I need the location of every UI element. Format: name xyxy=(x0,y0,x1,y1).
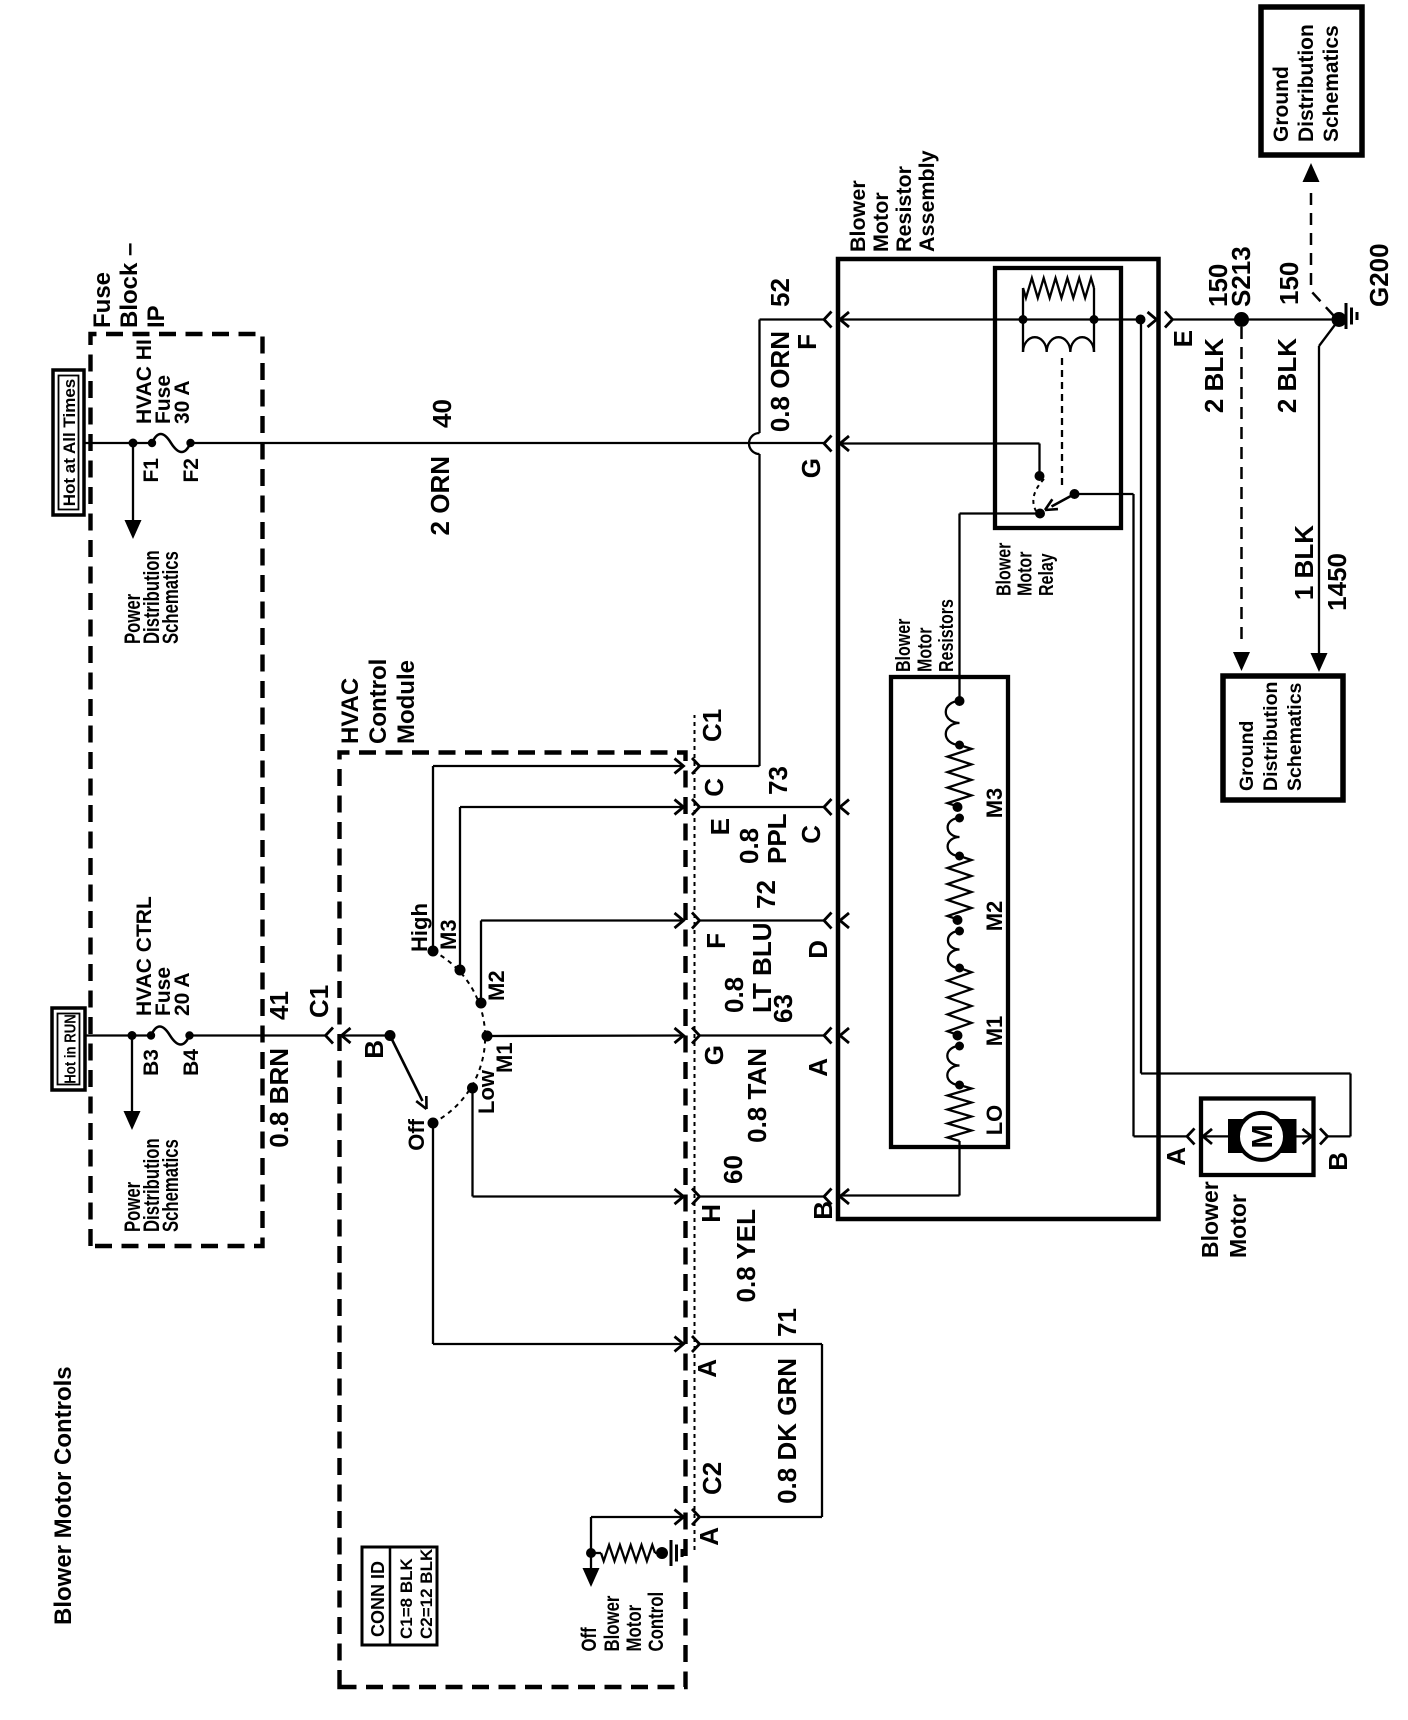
svg-text:72: 72 xyxy=(751,880,781,909)
svg-text:Ground: Ground xyxy=(1236,721,1258,791)
terminal dot of off resistor xyxy=(656,1547,668,1559)
wire 0.8 LT BLU 72 from pin F to assembly pin D xyxy=(700,919,825,921)
svg-text:G: G xyxy=(796,458,826,478)
switch contact Off xyxy=(428,1118,439,1129)
svg-text:Motor: Motor xyxy=(1225,1194,1251,1258)
connector pin G of resistor assembly xyxy=(824,436,832,452)
relay stationary contact (2 ORN) xyxy=(1035,471,1045,481)
svg-text:60: 60 xyxy=(718,1155,748,1184)
motor symbol M with brushes xyxy=(1203,1113,1312,1160)
svg-text:20 A: 20 A xyxy=(171,972,194,1016)
svg-text:Control: Control xyxy=(645,1592,668,1652)
svg-text:Resistors: Resistors xyxy=(935,599,957,672)
svg-text:Schematics: Schematics xyxy=(159,551,184,644)
connector pin B of resistor assembly xyxy=(824,1189,832,1205)
svg-text:G: G xyxy=(699,1045,729,1065)
blower motor resistors box xyxy=(891,677,1008,1147)
svg-text:C1: C1 xyxy=(304,985,334,1018)
switch pivot node xyxy=(385,1030,396,1041)
node xyxy=(955,964,964,973)
svg-text:Off: Off xyxy=(578,1627,601,1652)
switch arm with arrow toward Off xyxy=(390,1036,423,1102)
svg-text:0.8 DK GRN: 0.8 DK GRN xyxy=(772,1358,802,1504)
junction node on run feed xyxy=(128,1031,137,1040)
arrow off blower motor control xyxy=(583,1568,600,1587)
label box Hot in RUN xyxy=(52,1008,85,1090)
svg-text:A: A xyxy=(1161,1147,1191,1166)
svg-text:Schematics: Schematics xyxy=(1284,682,1306,791)
junction node on hot feed xyxy=(129,439,138,448)
wire 2 ORN 40 from fuse F2 down to blower motor resistor assembly pin G xyxy=(191,442,824,444)
svg-text:Blower: Blower xyxy=(1197,1181,1223,1258)
svg-text:G200: G200 xyxy=(1364,243,1394,307)
svg-text:Block –: Block – xyxy=(116,243,143,328)
svg-text:2 ORN: 2 ORN xyxy=(425,456,455,535)
switch contact M3 xyxy=(455,965,466,976)
arrow into upper ground distribution box xyxy=(1303,163,1320,182)
switch contact High xyxy=(428,946,439,957)
svg-text:LO: LO xyxy=(982,1105,1007,1136)
switch contact Low xyxy=(467,1083,478,1094)
wire inside module from C2 pin A to off resistor xyxy=(591,1517,684,1580)
svg-text:M1: M1 xyxy=(492,1042,517,1073)
svg-text:0.8: 0.8 xyxy=(734,828,764,864)
label Blower Motor Resistor Assembly xyxy=(846,150,939,252)
wire Off contact to pin A xyxy=(433,1123,684,1344)
wire High contact to pin C xyxy=(433,766,684,951)
svg-text:M1: M1 xyxy=(982,1016,1007,1047)
wire 0.8 BRN 41 from fuse B4 to HVAC control module pin B xyxy=(190,1034,326,1036)
label 0.8 PPL xyxy=(734,813,792,864)
coil section 4 xyxy=(947,1046,959,1085)
svg-text:IP: IP xyxy=(143,305,170,328)
svg-text:Resistor: Resistor xyxy=(892,165,916,252)
switch contact M1 xyxy=(482,1031,493,1042)
svg-text:Schematics: Schematics xyxy=(1320,25,1343,142)
resistor chain entry node xyxy=(955,696,965,706)
svg-text:M2: M2 xyxy=(484,970,509,1001)
wire M2 contact to pin F xyxy=(481,921,684,1004)
junction node motor return on pin E wire xyxy=(1136,315,1146,325)
svg-text:Schematics: Schematics xyxy=(159,1139,184,1232)
wire LO output to assembly pin B riser xyxy=(840,1141,960,1196)
relay coil with parallel resistor xyxy=(1023,278,1094,352)
svg-text:D: D xyxy=(803,940,833,959)
svg-text:41: 41 xyxy=(264,991,294,1020)
svg-text:High: High xyxy=(407,903,432,952)
svg-text:Motor: Motor xyxy=(1014,552,1036,596)
tap node M2 xyxy=(953,915,963,925)
connector pin F of resistor assembly xyxy=(824,312,832,328)
wire 0.8 DK GRN 71 loop from C1 pin A to C2 pin A xyxy=(700,1344,823,1517)
CONN ID table xyxy=(362,1547,437,1645)
svg-text:A: A xyxy=(803,1058,833,1077)
svg-text:Motor: Motor xyxy=(914,628,936,672)
arrow into ground distribution box (dashed) xyxy=(1233,652,1250,671)
connector C1 pin A xyxy=(675,1337,684,1352)
arrow to power distribution schematics xyxy=(125,520,142,539)
label Off Blower Motor Control xyxy=(578,1592,668,1652)
svg-text:C2=12 BLK: C2=12 BLK xyxy=(417,1548,436,1639)
svg-text:0.8 ORN: 0.8 ORN xyxy=(765,331,795,432)
svg-text:A: A xyxy=(694,1527,724,1546)
connector pin B of blower motor xyxy=(1303,1129,1312,1144)
resistor LO element xyxy=(948,1085,972,1141)
svg-text:C2: C2 xyxy=(697,1462,727,1495)
connector pin A of resistor assembly xyxy=(824,1028,832,1044)
connector pin E of resistor assembly xyxy=(1148,312,1157,327)
svg-text:Blower: Blower xyxy=(846,180,870,252)
svg-text:M3: M3 xyxy=(982,788,1007,819)
blower motor resistor assembly box xyxy=(838,259,1159,1219)
node xyxy=(955,1081,964,1090)
svg-text:Assembly: Assembly xyxy=(915,150,939,252)
coil section 3 xyxy=(948,931,960,968)
ground distribution schematics box (upper) xyxy=(1261,7,1362,155)
resistor M3 element xyxy=(948,745,972,807)
connector C1 pin E xyxy=(675,800,684,815)
wire relay moving contact to resistor chain xyxy=(960,514,1041,702)
connector pin D of resistor assembly xyxy=(824,913,832,929)
HVAC control module dashed box xyxy=(340,753,686,1688)
svg-text:F: F xyxy=(792,334,822,350)
wire M3 contact to pin E xyxy=(460,807,684,970)
coil section 1 xyxy=(946,701,960,745)
svg-text:40: 40 xyxy=(427,399,457,428)
svg-text:52: 52 xyxy=(765,278,795,307)
svg-text:Blower: Blower xyxy=(892,619,914,672)
label Power Distribution Schematics (left) xyxy=(121,1138,184,1232)
svg-text:Motor: Motor xyxy=(623,1604,646,1651)
svg-text:CONN ID: CONN ID xyxy=(368,1561,388,1637)
connector C1 pin C xyxy=(675,759,684,774)
svg-text:Relay: Relay xyxy=(1035,553,1057,596)
svg-text:Blower: Blower xyxy=(601,1595,624,1651)
wire 1 BLK 1450 from G200 to ground distribution schematics xyxy=(1319,320,1339,658)
svg-text:1 BLK: 1 BLK xyxy=(1289,525,1319,600)
label 0.8 LT BLU xyxy=(719,923,777,1014)
label HVAC Control Module xyxy=(337,659,420,744)
relay arm with arrow xyxy=(1052,494,1075,507)
connector C1 pin H xyxy=(675,1189,684,1204)
resistor M1 element xyxy=(948,968,972,1036)
svg-text:B: B xyxy=(1323,1152,1353,1171)
ground symbol G200 xyxy=(1345,303,1348,329)
connector C1 pin B into module xyxy=(326,1028,334,1044)
svg-text:C1: C1 xyxy=(697,709,727,742)
blower motor relay box xyxy=(995,268,1121,528)
connector pin C of resistor assembly xyxy=(824,799,832,815)
ground distribution schematics box (lower) xyxy=(1223,676,1343,800)
svg-text:HVAC: HVAC xyxy=(337,678,364,744)
svg-text:71: 71 xyxy=(772,1308,802,1337)
tap node M3 xyxy=(953,802,963,812)
svg-text:0.8 TAN: 0.8 TAN xyxy=(742,1048,772,1143)
blower motor box xyxy=(1201,1099,1314,1176)
svg-text:A: A xyxy=(692,1359,722,1378)
svg-text:E: E xyxy=(1168,330,1198,347)
svg-text:E: E xyxy=(705,818,735,835)
label Power Distribution Schematics (right) xyxy=(121,550,184,644)
svg-text:2 BLK: 2 BLK xyxy=(1199,338,1229,413)
junction node at off resistor xyxy=(586,1548,596,1558)
wire 0.8 YEL 60 from pin H to assembly pin B xyxy=(700,1195,825,1197)
fuse HVAC CTRL 20A B3-B4 xyxy=(147,1027,194,1045)
fuse HVAC HI 30A F1-F2 xyxy=(148,434,195,452)
svg-text:Motor: Motor xyxy=(869,192,893,252)
wire relay pivot to motor pin A xyxy=(1075,494,1188,1136)
svg-text:C: C xyxy=(796,825,826,844)
node xyxy=(955,852,964,861)
ground node G200 xyxy=(1332,312,1347,327)
wire from pin B to switch pivot xyxy=(342,1034,391,1036)
dashed wire S213 to ground distribution schematics xyxy=(1240,327,1243,646)
svg-text:C1=8 BLK: C1=8 BLK xyxy=(397,1558,416,1639)
svg-text:Control: Control xyxy=(365,659,392,744)
svg-text:0.8 BRN: 0.8 BRN xyxy=(264,1048,294,1148)
resistor off blower motor control xyxy=(601,1545,655,1561)
svg-text:Off: Off xyxy=(404,1118,429,1150)
wire branch to power distribution xyxy=(132,443,134,534)
svg-text:Distribution: Distribution xyxy=(1295,24,1318,142)
label Blower Motor Relay xyxy=(993,543,1058,596)
node xyxy=(955,741,964,750)
svg-text:150: 150 xyxy=(1274,262,1304,305)
wire Low contact to pin H xyxy=(473,1088,684,1197)
connector C2 pin A into module xyxy=(675,1510,684,1525)
node coil bottom xyxy=(1090,315,1099,324)
label HVAC CTRL Fuse 20 A xyxy=(133,896,194,1016)
connector dashed line C1/C2 below module xyxy=(694,715,696,1550)
wire 2 ORN inside assembly to relay contact xyxy=(840,444,1040,477)
svg-text:PPL: PPL xyxy=(762,813,792,864)
splice S213 xyxy=(1234,312,1249,327)
svg-text:B3: B3 xyxy=(140,1049,163,1076)
svg-text:Fuse: Fuse xyxy=(89,272,116,328)
label HVAC HI Fuse 30 A xyxy=(133,339,194,424)
fuse block IP dashed box xyxy=(91,334,263,1246)
svg-text:30 A: 30 A xyxy=(171,380,194,424)
svg-text:Blower Motor Controls: Blower Motor Controls xyxy=(50,1366,77,1625)
relay linkage dashed xyxy=(1061,358,1063,488)
arrow to power distribution schematics (left) xyxy=(124,1111,141,1130)
svg-text:C: C xyxy=(699,778,729,797)
svg-text:Distribution: Distribution xyxy=(1260,682,1282,791)
wire through relay coil (0.8 ORN feed) xyxy=(840,318,1141,320)
wire M1 contact to pin G xyxy=(487,1034,684,1037)
svg-text:Hot at All Times: Hot at All Times xyxy=(60,379,79,507)
connector pin A of blower motor xyxy=(1187,1128,1195,1144)
svg-text:H: H xyxy=(696,1204,726,1223)
connector C1 pin G xyxy=(675,1028,684,1043)
switch contact M2 xyxy=(476,998,487,1009)
svg-text:Ground: Ground xyxy=(1270,66,1293,142)
svg-text:B: B xyxy=(359,1040,389,1059)
svg-text:0.8 YEL: 0.8 YEL xyxy=(731,1209,761,1303)
svg-text:F1: F1 xyxy=(140,458,163,483)
svg-text:S213: S213 xyxy=(1226,246,1256,307)
wire branch to power distribution (left) xyxy=(131,1036,133,1126)
svg-text:Low: Low xyxy=(474,1069,499,1114)
dashed wire G200 to upper ground distribution schematics xyxy=(1311,188,1334,316)
label box Hot at All Times xyxy=(53,370,84,515)
svg-text:73: 73 xyxy=(763,766,793,795)
coil section 2 xyxy=(948,818,960,856)
svg-text:Module: Module xyxy=(393,660,420,744)
svg-text:63: 63 xyxy=(768,994,798,1023)
wire hot-in-run feed to fuse B3 xyxy=(85,1034,151,1036)
svg-text:Hot in RUN: Hot in RUN xyxy=(63,1014,80,1083)
wire 0.8 ORN 52 from pin C to assembly pin F xyxy=(700,320,825,767)
svg-text:M2: M2 xyxy=(982,901,1007,932)
node coil top xyxy=(1019,315,1028,324)
relay pivot xyxy=(1070,489,1080,499)
label Blower Motor xyxy=(1197,1181,1251,1258)
arrow into ground distribution box (1 BLK) xyxy=(1311,653,1328,672)
wire 0.8 TAN 63 from pin G to assembly pin A xyxy=(700,1034,825,1036)
wire motor B return to pin E junction xyxy=(1141,320,1351,1137)
wire 0.8 PPL 73 from pin E to assembly pin C xyxy=(700,806,825,808)
wire hot-at-all-times feed to fuse F1 xyxy=(84,442,152,444)
svg-text:F2: F2 xyxy=(180,458,203,483)
svg-text:0.8: 0.8 xyxy=(719,977,749,1013)
label Blower Motor Resistors xyxy=(892,599,957,672)
relay moving contact xyxy=(1035,509,1045,519)
connector C1 pin F xyxy=(675,913,684,928)
wire 2 BLK 150 splice to ground G200 xyxy=(1242,318,1340,320)
svg-text:B: B xyxy=(808,1201,838,1220)
svg-text:B4: B4 xyxy=(180,1049,203,1076)
wire 2 BLK 150 pin E to splice S213 xyxy=(1173,318,1242,320)
tap node M1 xyxy=(953,1031,963,1041)
ground symbol at off resistor xyxy=(670,1540,673,1566)
svg-text:M: M xyxy=(1247,1124,1279,1148)
switch travel dashed arc xyxy=(433,951,485,1123)
svg-text:F: F xyxy=(701,933,731,949)
svg-text:M3: M3 xyxy=(436,919,461,950)
label Fuse Block - IP xyxy=(89,243,170,328)
resistor M2 element xyxy=(948,856,972,920)
svg-text:Blower: Blower xyxy=(993,543,1015,596)
svg-text:2 BLK: 2 BLK xyxy=(1272,338,1302,413)
relay travel dashed arc xyxy=(1033,479,1044,511)
svg-text:1450: 1450 xyxy=(1322,553,1352,611)
